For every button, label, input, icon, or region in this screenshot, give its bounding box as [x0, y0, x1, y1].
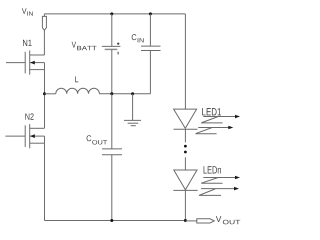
label L: [75, 76, 78, 82]
wire: top rail (VIN node): [44, 13, 185, 15]
terminal VOUT: [185, 219, 214, 223]
wire: N1 source to N2 drain (left rail): [44, 70, 46, 129]
LEDn light arrows: [199, 176, 240, 196]
ground: [124, 94, 141, 126]
label CIN: [132, 34, 144, 42]
label N2: [25, 113, 33, 119]
wire: LEDn to bottom rail: [184, 190, 186, 220]
wire: VIN tag to N1 drain: [43, 30, 45, 55]
label N1: [23, 40, 32, 46]
LED Dn: [173, 170, 197, 190]
wire: inductor to CIN bottom (ground node rail): [99, 93, 150, 95]
junction dot: ground tap: [131, 92, 134, 95]
junction dot: VOUT tap: [184, 219, 187, 222]
label COUT: [87, 135, 108, 144]
junction dot: ground node / battery bottom: [110, 92, 113, 95]
junction dot: COUT bottom: [110, 219, 113, 222]
capacitor CIN: [141, 14, 161, 94]
junction dot: CIN top: [149, 12, 152, 15]
input terminal VIN: [42, 14, 46, 30]
capacitor COUT: [102, 94, 122, 221]
label LEDn: [204, 166, 221, 173]
series ellipsis dots (more LEDs): [184, 145, 187, 148]
wire: right rail to LED1: [184, 14, 186, 109]
wire: to LEDn: [184, 157, 186, 170]
junction dot: battery top: [110, 12, 113, 15]
junction: switch node dot: [43, 92, 46, 95]
wire: switch node to inductor: [45, 93, 56, 95]
label VIN: [22, 8, 33, 15]
LED D1: [174, 109, 198, 129]
label LED1: [202, 108, 221, 115]
label VOUT: [216, 216, 240, 224]
inductor L: [56, 88, 100, 94]
wire: bottom rail: [45, 220, 186, 222]
transistor N2: [5, 124, 44, 148]
battery VBATT: [102, 14, 121, 94]
wire: LED1 cathode down: [184, 129, 186, 142]
LED1 light arrows: [196, 115, 241, 134]
label VBATT: [72, 42, 97, 50]
transistor N1: [6, 51, 45, 75]
wire: N2 source to bottom rail: [44, 143, 46, 220]
